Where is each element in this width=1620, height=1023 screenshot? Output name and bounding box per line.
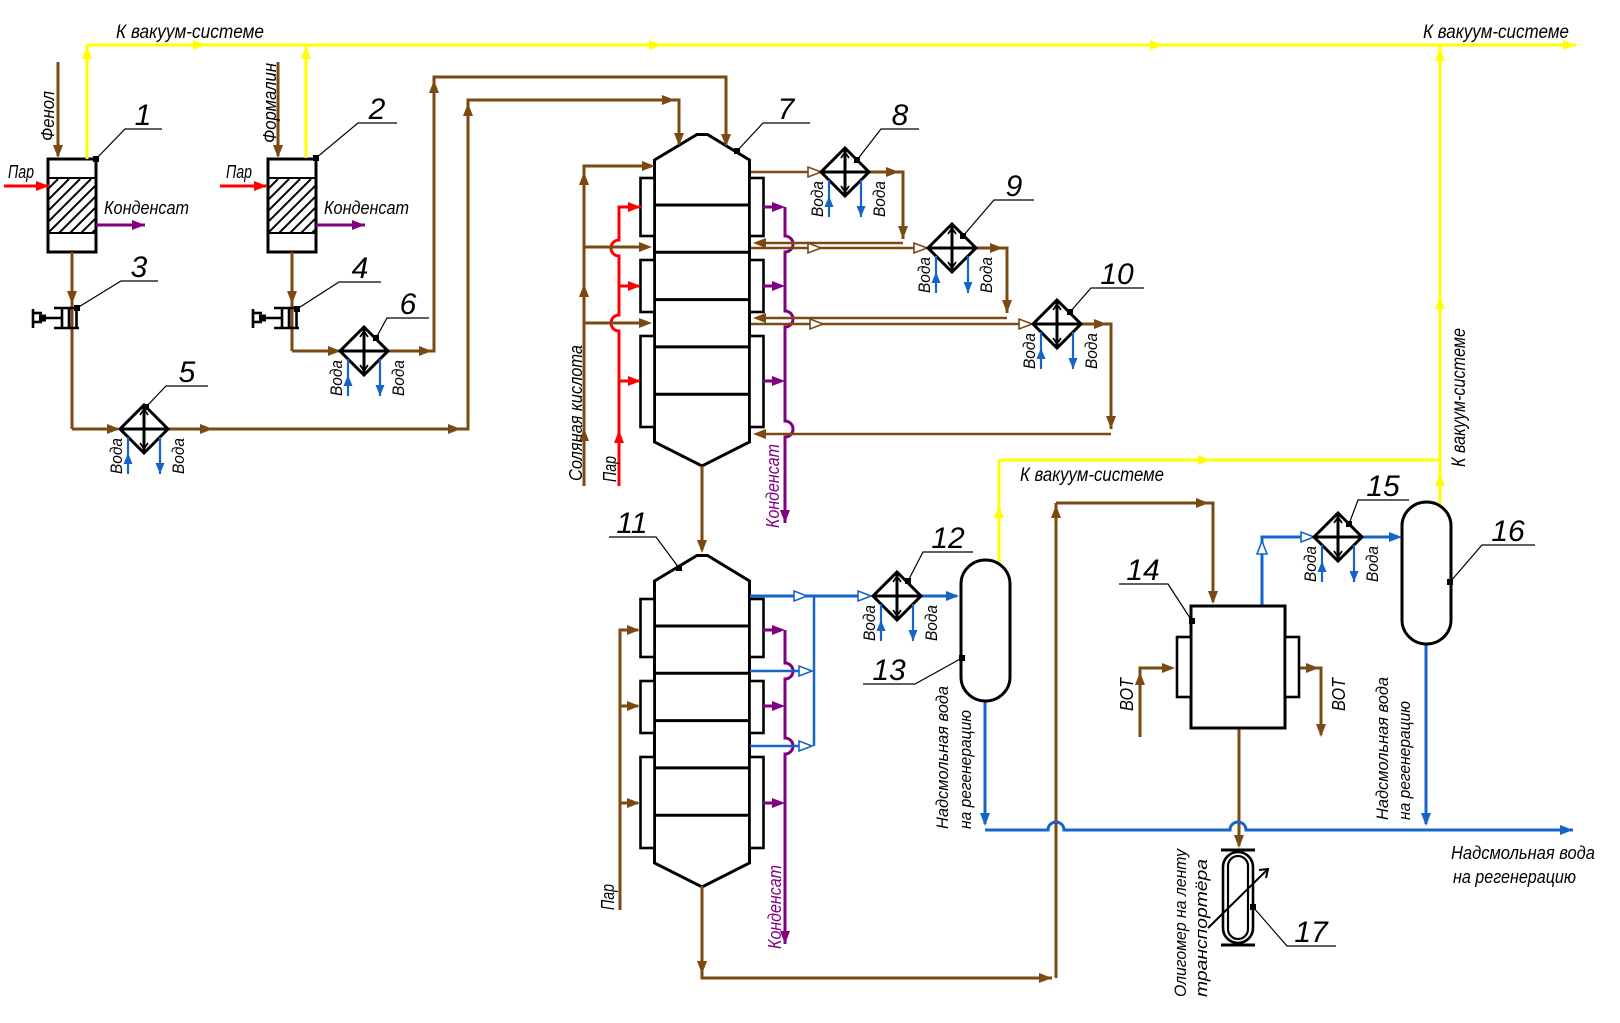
svg-text:на регенерацию: на регенерацию [1453,867,1576,887]
vessel 1 (phenol steam heater) [0,159,223,252]
wire: column 11 vapor tap 3 [750,745,808,748]
wire: apparatus 14 overhead to exchanger 15 [1262,537,1310,606]
column 11 (stripping column) [655,556,750,888]
label 10 callout [1067,309,1073,315]
svg-text:Вода: Вода [860,605,879,641]
svg-text:10: 10 [1100,258,1134,291]
svg-text:Вода: Вода [1363,546,1382,582]
svg-text:транспортёра: транспортёра [1192,859,1211,997]
svg-text:Вода: Вода [808,181,827,217]
column 7 (reactor column) [655,135,750,467]
svg-text:Надсмольная вода: Надсмольная вода [1451,843,1595,863]
svg-text:5: 5 [179,356,196,389]
wire: exchanger 10 outlet return to column 7 bottom [1081,324,1111,429]
svg-text:Соляная кислота: Соляная кислота [566,345,586,481]
wire: heat-carrier BOT outlet from apparatus 14 [1299,668,1321,735]
wire: exchanger 8 outlet return to column 7 [869,172,903,239]
label 7 callout [734,148,740,154]
wire: column 7 condensate header (hops over brown lines) [785,207,793,523]
svg-text:17: 17 [1294,916,1329,949]
svg-text:Вода: Вода [922,605,941,641]
wire: regenerated water header (hops over brown lines) [985,822,1573,830]
svg-text:Конденсат: Конденсат [324,198,409,218]
svg-text:Конденсат: Конденсат [763,444,783,528]
wire: exchanger 15 outlet to vessel 16 [1362,536,1398,539]
vessel 13 (separator) [961,560,1010,701]
svg-text:4: 4 [352,252,369,285]
svg-text:Вода: Вода [107,438,126,474]
label 2 callout [313,155,319,161]
wire: feed into exchanger 6 [292,350,339,353]
svg-text:К вакуум-системе: К вакуум-системе [1020,465,1164,486]
svg-text:Вода: Вода [1020,333,1039,369]
svg-text:К вакуум-системе: К вакуум-системе [116,22,264,43]
wire: acid branch to column 7 section 2 [584,246,648,249]
heat exchanger 6 [340,327,388,375]
svg-text:6: 6 [400,288,417,321]
wire: steam branch to column 11 section 2 [620,705,638,708]
wire: acid branch to column 7 section 3 [584,322,648,325]
svg-text:Конденсат: Конденсат [104,198,189,218]
label 11 callout [676,565,682,571]
svg-text:15: 15 [1366,470,1400,503]
wire: steam to vessel 2 [220,185,267,188]
wire: heat-carrier BOT inlet to apparatus 14 [1140,668,1172,737]
svg-text:Фенол: Фенол [38,91,58,141]
wire: column 7 bottoms to column 11 [701,466,704,550]
svg-text:Олигомер на ленту: Олигомер на ленту [1171,848,1190,997]
label 5 callout [143,404,149,410]
wire: column 7 condensate outlet section 3 [763,380,780,383]
wire: vessel 1 drain through trap 3 [71,252,74,429]
svg-text:Вода: Вода [389,360,408,396]
svg-text:Пар: Пар [598,884,618,910]
svg-text:Надсмольная вода: Надсмольная вода [1373,677,1392,820]
wire: column 7 section 3 vapor to exchanger 10 [751,323,1027,326]
svg-text:Пар: Пар [8,162,34,182]
label 16 callout [1447,579,1453,585]
svg-text:Вода: Вода [1082,333,1101,369]
wire: steam line to column 11 [620,630,638,910]
wire: steam branch to column 11 section 3 [620,802,638,805]
wire: feed into exchanger 5 [72,428,118,431]
svg-text:ВОТ: ВОТ [1329,676,1349,711]
wire: column 11 condensate outlet section 3 [763,802,780,805]
svg-text:Вода: Вода [870,181,889,217]
wire: steam branch to column 7 middle section [619,285,639,288]
wire: condensate from vessel 1 [96,224,145,227]
vessel 2 (formalin steam heater) [202,159,443,252]
label 12 callout [905,578,911,584]
svg-text:Вода: Вода [915,257,934,293]
label 9 callout [960,233,966,239]
svg-text:9: 9 [1006,170,1023,203]
svg-text:12: 12 [931,522,965,555]
wire: vacuum line riser from vessel 1 [86,45,89,159]
wire: column 7 condensate outlet section 1 [763,206,780,209]
wire: column 11 bottoms line to apparatus 14 [702,886,1052,978]
svg-text:2: 2 [368,93,386,126]
wire: apparatus 14 bottom outlet to feeder 17 [1238,728,1241,846]
svg-text:16: 16 [1491,515,1525,548]
heat exchanger 8 [821,148,869,196]
wire: exchanger 12 outlet to vessel 13 [921,595,957,598]
svg-text:Вода: Вода [977,257,996,293]
label 14 callout [1189,618,1195,624]
wire: main vacuum header (top) [87,44,1576,47]
vessel 16 (separator) [1402,502,1451,644]
wire: exchanger 9 outlet return to column 7 [976,248,1007,313]
label 17 callout [1250,904,1256,910]
wire: exchanger 6 outlet riser to column 7 top left [387,77,726,351]
wire: column 11 condensate header (hops over blue lines) [785,630,793,944]
label 13 callout [959,655,965,661]
svg-text:Вода: Вода [327,360,346,396]
svg-text:на регенерацию: на регенерацию [1395,701,1414,820]
heat exchanger 10 [1033,300,1081,348]
label 4 callout [294,306,300,312]
heat exchanger 15 [1314,513,1362,561]
wire: steam riser to column 7 (hops over acid branches) [611,207,641,486]
label 15 callout [1346,521,1352,527]
label 3 callout [74,305,80,311]
svg-text:3: 3 [131,251,148,284]
svg-text:13: 13 [872,654,906,687]
label 6 callout [373,335,379,341]
label 1 callout [93,156,99,162]
wire: exchanger 5 outlet riser to column 7 top right [168,100,679,429]
wire: steam branch to column 7 lower section [619,380,639,383]
svg-text:Вода: Вода [169,438,188,474]
wire: formalin feed into vessel 2 [277,62,280,156]
wire: column 7 vapor to exchanger 8 [751,171,815,174]
wire: column 11 condensate outlet section 1 [763,629,780,632]
node: vacuum header junction right [1439,45,1442,509]
wire: vacuum line from vessel 13 [998,460,1001,565]
svg-text:11: 11 [616,507,647,540]
wire: phenol feed into vessel 1 [57,62,60,156]
svg-text:Конденсат: Конденсат [765,865,785,949]
svg-text:Пар: Пар [226,162,252,182]
label 8 callout [854,157,860,163]
svg-text:Надсмольная вода: Надсмольная вода [933,686,952,829]
apparatus 14 (evaporator) [1191,606,1285,728]
heat exchanger 12 [873,572,921,620]
wire: vessel 2 drain through trap 4 [291,252,294,351]
wire: vapor collector [813,596,816,746]
steam trap 3 [54,307,79,310]
svg-text:8: 8 [892,99,909,132]
wire: column 11 overhead vapor to exchanger 12 [750,595,868,598]
wire: vessel 16 bottom outlet [1425,644,1428,824]
svg-text:на регенерацию: на регенерацию [956,710,975,829]
svg-text:Вода: Вода [1301,546,1320,582]
svg-text:14: 14 [1126,554,1159,587]
feeder 17 (rotary feeder to conveyor) [1221,849,1255,852]
wire: vacuum line riser from vessel 2 [305,45,308,158]
svg-text:К вакуум-системе: К вакуум-системе [1423,22,1569,43]
wire: steam to vessel 1 [4,185,49,188]
wire: column 7 section 2 vapor to exchanger 9 [751,247,922,250]
svg-text:7: 7 [778,93,796,126]
wire: column 7 condensate outlet section 2 [763,285,780,288]
heat exchanger 5 [120,405,168,453]
wire: condensate from vessel 2 [316,224,365,227]
wire: hydrochloric acid line to column 7 [584,166,652,486]
svg-text:Пар: Пар [600,456,620,482]
svg-text:1: 1 [135,99,152,132]
wire: vacuum branch to right header [999,459,1440,462]
svg-text:ВОТ: ВОТ [1117,676,1137,711]
wire: vessel 13 bottom outlet [984,701,987,824]
wire: column 11 condensate outlet section 2 [763,705,780,708]
svg-text:Формалин: Формалин [260,63,280,143]
steam trap 4 [274,307,299,310]
heat exchanger 9 [928,224,976,272]
svg-text:К вакуум-системе: К вакуум-системе [1449,328,1470,467]
wire: column 11 vapor tap 2 [750,670,808,673]
